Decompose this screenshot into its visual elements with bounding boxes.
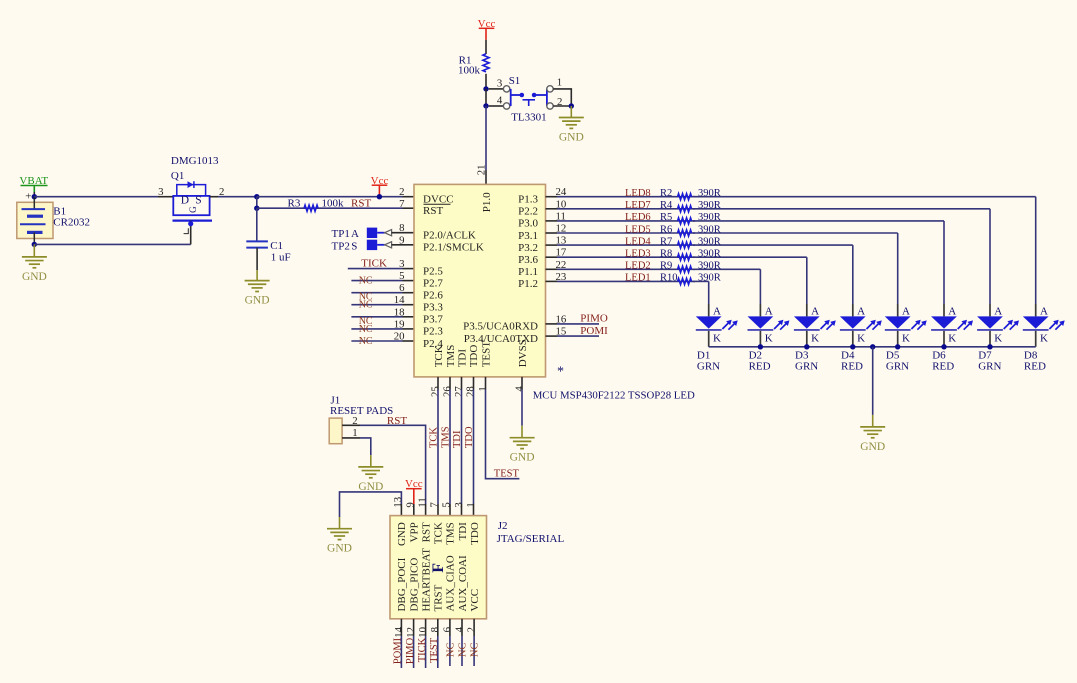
svg-text:F: F <box>430 563 447 573</box>
svg-text:NC: NC <box>359 276 373 287</box>
svg-text:GND: GND <box>245 295 270 307</box>
LED D8 RED <box>1023 305 1065 372</box>
wire J2 pin 10 down <box>425 619 427 668</box>
svg-text:DVSS: DVSS <box>517 339 529 367</box>
svg-text:LED7: LED7 <box>625 200 651 211</box>
svg-text:P3.6: P3.6 <box>518 254 538 266</box>
svg-text:P1.0: P1.0 <box>481 192 493 212</box>
LED D4 RED <box>840 305 882 372</box>
svg-text:P2.3: P2.3 <box>423 326 443 338</box>
wire NC to MCU (left row 2) <box>351 292 414 294</box>
wire J2 pin 8 down <box>437 619 439 668</box>
svg-text:P3.1: P3.1 <box>518 230 538 242</box>
LED D5 GRN <box>885 305 927 372</box>
svg-text:20: 20 <box>394 331 405 343</box>
svg-text:4: 4 <box>453 626 465 632</box>
node cathode bus junction <box>804 344 809 349</box>
MCU right pin names <box>463 194 538 345</box>
node battery minus <box>32 242 37 247</box>
svg-text:TDO: TDO <box>468 345 480 368</box>
svg-text:TL3301: TL3301 <box>511 111 546 123</box>
net label LED1 <box>625 273 651 284</box>
svg-text:26: 26 <box>442 386 454 397</box>
svg-text:VPP: VPP <box>408 522 420 542</box>
no-connect label NC pin 4 <box>458 643 469 658</box>
svg-text:5: 5 <box>441 502 453 507</box>
svg-text:3: 3 <box>158 186 163 198</box>
net label LED5 <box>625 224 651 235</box>
wire D1 cathode to bus <box>708 331 710 347</box>
wire J2 pin 2 down <box>473 619 475 666</box>
svg-text:R7: R7 <box>660 236 672 247</box>
net label TEST <box>494 468 520 479</box>
MCU caption MSP430F2122 TSSOP28 LED <box>533 389 695 401</box>
node cathode bus junction <box>987 344 992 349</box>
svg-text:18: 18 <box>394 306 405 318</box>
svg-text:DMG1013: DMG1013 <box>171 155 219 167</box>
svg-text:LED3: LED3 <box>625 249 651 260</box>
svg-text:VCC: VCC <box>469 589 481 612</box>
svg-text:DBG_PICO: DBG_PICO <box>408 558 420 612</box>
svg-text:A: A <box>1040 305 1048 317</box>
svg-text:K: K <box>857 332 865 344</box>
ground at S1 <box>559 106 584 144</box>
svg-text:S: S <box>351 240 357 252</box>
net label POMI at J2 <box>393 637 404 664</box>
wire R3 to MCU RST pin 7 <box>321 207 415 209</box>
net label LED4 <box>625 236 651 247</box>
ground at J2 pin 13 <box>327 517 352 555</box>
svg-text:P2.2: P2.2 <box>518 206 538 218</box>
svg-text:8: 8 <box>399 222 404 234</box>
svg-text:14: 14 <box>394 294 405 306</box>
net label TDO <box>464 426 475 448</box>
svg-text:P2.7: P2.7 <box>423 277 443 289</box>
svg-text:P3.5/UCA0RXD: P3.5/UCA0RXD <box>463 321 538 333</box>
wire D7 cathode to bus <box>989 331 991 347</box>
svg-text:HEARTBEAT: HEARTBEAT <box>420 548 432 612</box>
svg-text:TCK: TCK <box>433 522 445 544</box>
node R3 tap <box>254 206 259 211</box>
svg-text:S: S <box>195 194 201 206</box>
wire J1 pin 2 RST to J2 pin 11 <box>342 425 426 515</box>
svg-text:R6: R6 <box>660 224 672 235</box>
svg-text:CR2032: CR2032 <box>53 217 90 229</box>
net label RST <box>351 197 371 209</box>
wire D3 cathode to bus <box>806 331 808 347</box>
svg-text:5: 5 <box>399 270 404 282</box>
svg-text:TMS: TMS <box>441 426 452 448</box>
svg-text:3: 3 <box>399 258 404 270</box>
resistor R9 390R <box>660 261 721 273</box>
svg-text:TICK: TICK <box>361 257 387 269</box>
svg-text:GND: GND <box>559 132 584 144</box>
svg-text:9: 9 <box>399 234 404 246</box>
wire R9 to LED D2 <box>693 269 760 316</box>
ground at battery <box>22 244 47 283</box>
connector J2 JTAG/SERIAL body <box>390 516 487 619</box>
LED D3 GRN <box>794 305 836 372</box>
svg-text:K: K <box>765 332 773 344</box>
svg-text:10: 10 <box>417 627 429 638</box>
wire node down to C1 <box>256 208 258 241</box>
wire battery plus to Q1 pin 3 <box>34 196 173 198</box>
ground at DVSS <box>510 426 535 464</box>
power Vcc (top) <box>478 18 496 40</box>
test pad TP2 <box>332 240 378 253</box>
svg-text:A: A <box>857 305 865 317</box>
wire R10 to LED D1 <box>693 281 709 316</box>
svg-text:A: A <box>948 305 956 317</box>
J2 F marker <box>430 563 447 573</box>
svg-text:TMS: TMS <box>445 522 457 545</box>
svg-text:R4: R4 <box>660 200 673 211</box>
wire Q1 pin 2 to node <box>210 196 257 198</box>
wire MCU pin 16 stub <box>546 323 600 325</box>
svg-text:19: 19 <box>394 318 405 330</box>
resistor R5 390R <box>660 212 721 224</box>
wire node to MCU P1.0 pin 21 <box>476 106 488 184</box>
wire NC to MCU (left row 4) <box>351 316 414 318</box>
svg-text:A: A <box>765 305 773 317</box>
svg-text:GND: GND <box>22 271 47 283</box>
connector J1 RESET PADS <box>329 395 393 444</box>
power Vcc at J2 <box>405 478 423 515</box>
ground at LED bus <box>860 415 885 453</box>
node cathode bus junction <box>895 344 900 349</box>
net label PIMO <box>580 313 608 325</box>
wire Vcc to R1 <box>485 40 487 54</box>
svg-text:TDI: TDI <box>456 349 468 368</box>
svg-text:LED1: LED1 <box>625 273 651 284</box>
svg-text:*: * <box>557 365 564 380</box>
svg-text:1: 1 <box>465 502 477 507</box>
no-connect label NC pin 2 <box>470 643 481 658</box>
transistor Q1 DMG1013 <box>158 155 224 244</box>
svg-text:4: 4 <box>514 386 526 392</box>
svg-text:21: 21 <box>476 165 488 176</box>
svg-text:PIMO: PIMO <box>405 637 416 664</box>
svg-text:LED2: LED2 <box>625 261 651 272</box>
svg-text:G: G <box>188 206 198 213</box>
svg-text:K: K <box>811 332 819 344</box>
svg-text:POMI: POMI <box>393 637 404 664</box>
svg-text:NC: NC <box>458 643 469 658</box>
node R1/S1 junction 1 <box>483 86 488 91</box>
svg-text:TP2: TP2 <box>332 240 350 252</box>
svg-text:P2.0/ACLK: P2.0/ACLK <box>423 230 476 242</box>
svg-text:8: 8 <box>429 627 441 632</box>
no-connect label NC pin 6 <box>445 643 456 658</box>
svg-text:R8: R8 <box>660 249 672 260</box>
svg-text:TCK: TCK <box>429 427 440 448</box>
svg-text:R3: R3 <box>288 197 301 209</box>
svg-text:9: 9 <box>404 502 416 507</box>
net label PIMO at J2 <box>405 637 416 664</box>
LED D2 RED <box>748 305 790 372</box>
svg-text:TMS: TMS <box>445 345 457 368</box>
svg-text:100k: 100k <box>458 65 481 77</box>
svg-text:+: + <box>25 190 31 202</box>
svg-text:A: A <box>994 305 1002 317</box>
net label TDI <box>452 430 463 448</box>
wire MCU to resistor R7 <box>546 244 696 246</box>
svg-text:K: K <box>948 332 956 344</box>
svg-text:P3.7: P3.7 <box>423 314 443 326</box>
net label TICK at J2 <box>417 637 428 662</box>
svg-text:GND: GND <box>396 522 408 546</box>
svg-text:14: 14 <box>393 626 405 637</box>
svg-text:P3.0: P3.0 <box>518 218 538 230</box>
wire MCU to resistor R10 <box>546 280 696 282</box>
node Q1 out <box>254 194 259 199</box>
ground at J1 <box>358 455 383 493</box>
svg-text:LED6: LED6 <box>625 212 651 223</box>
J2 bottom pin names <box>396 548 481 612</box>
svg-text:NC: NC <box>359 300 373 311</box>
node S1 ground junction <box>569 103 574 108</box>
wire MCU to resistor R6 <box>546 232 696 234</box>
svg-text:25: 25 <box>430 386 442 397</box>
LED D1 GRN <box>696 305 738 372</box>
wire R5 to LED D6 <box>693 221 944 317</box>
svg-text:GRN: GRN <box>978 360 1001 372</box>
wire S1 pin1/pin2 to ground <box>553 89 571 106</box>
no-connect label NC <box>359 336 373 347</box>
MCU bottom pin names <box>433 339 529 367</box>
resistor R4 390R <box>660 200 721 212</box>
switch S1 TL3301 <box>489 75 563 123</box>
wire TICK to MCU pin 3 <box>348 268 414 270</box>
svg-text:13: 13 <box>392 497 404 508</box>
wire MCU DVSS pin 4 to ground <box>521 377 523 426</box>
svg-text:RED: RED <box>841 360 863 372</box>
wire MCU pin 15 stub <box>546 335 600 337</box>
net label LED8 <box>625 188 651 199</box>
J2 top pin names <box>396 522 481 546</box>
wire battery minus to Q1 gate <box>34 243 190 245</box>
resistor R7 390R <box>660 236 721 248</box>
svg-text:1: 1 <box>557 77 562 89</box>
svg-text:POMI: POMI <box>580 325 608 337</box>
svg-text:GRN: GRN <box>795 360 818 372</box>
svg-text:2: 2 <box>466 627 478 632</box>
node S1 junction 2 <box>483 103 488 108</box>
svg-text:K: K <box>1040 332 1048 344</box>
svg-text:R9: R9 <box>660 261 672 272</box>
wire J2 pin 6 down <box>449 619 451 666</box>
MCU asterisk <box>557 365 564 380</box>
svg-text:RST: RST <box>423 205 443 217</box>
svg-text:R5: R5 <box>660 212 672 223</box>
svg-text:3: 3 <box>453 502 465 507</box>
svg-text:A: A <box>351 228 359 240</box>
wire LED cathode bus <box>709 346 1036 348</box>
no-connect label NC <box>359 316 373 327</box>
wire MCU to resistor R2 <box>546 196 696 198</box>
svg-text:NC: NC <box>359 324 373 335</box>
wire MCU pin 27 to J2 (TDI) <box>461 377 463 516</box>
wire MCU pin 26 to J2 (TMS) <box>449 377 451 516</box>
svg-text:LED8: LED8 <box>625 188 651 199</box>
net label LED7 <box>625 200 651 211</box>
test pad TP1 <box>332 228 378 241</box>
wire R7 to LED D4 <box>693 245 853 316</box>
svg-text:P1.3: P1.3 <box>518 194 538 206</box>
node cathode bus junction <box>850 344 855 349</box>
wire MCU TEST pin 1 <box>486 377 520 479</box>
svg-text:GRN: GRN <box>697 360 720 372</box>
svg-text:RED: RED <box>1024 360 1046 372</box>
svg-text:TDO: TDO <box>464 426 475 448</box>
no-connect label NC <box>359 324 373 335</box>
svg-text:TRST: TRST <box>433 584 445 611</box>
svg-text:TDI: TDI <box>452 430 463 448</box>
wire MCU to resistor R9 <box>546 268 696 270</box>
svg-text:P2.6: P2.6 <box>423 290 443 302</box>
LED D7 GRN <box>977 305 1019 372</box>
node cathode bus junction <box>758 344 763 349</box>
resistor R1 <box>458 54 489 77</box>
svg-text:GND: GND <box>327 543 352 555</box>
wire MCU pin 25 to J2 (TCK) <box>437 377 439 516</box>
J2 top pin numbers <box>392 497 477 508</box>
MCU U1 MSP430F2122 body <box>414 184 546 377</box>
svg-text:P3.3: P3.3 <box>423 302 443 314</box>
svg-text:Q1: Q1 <box>171 170 184 182</box>
svg-text:TICK: TICK <box>417 637 428 662</box>
wire J2 pin 13 to ground <box>340 492 402 517</box>
svg-text:RST: RST <box>420 522 432 542</box>
wire junction to junction <box>485 89 487 106</box>
svg-text:P1.2: P1.2 <box>518 278 538 290</box>
svg-text:NC: NC <box>359 336 373 347</box>
MCU bottom pin numbers <box>430 386 526 397</box>
wire TP1 to MCU pin 8 <box>377 230 414 236</box>
svg-text:P1.1: P1.1 <box>518 266 538 278</box>
J2 bottom pin numbers <box>393 626 478 637</box>
net label LED6 <box>625 212 651 223</box>
net label TCK <box>429 427 440 448</box>
svg-text:4: 4 <box>497 95 503 107</box>
svg-text:JTAG/SERIAL: JTAG/SERIAL <box>497 533 565 545</box>
wire node down to RST row <box>256 197 258 209</box>
resistor R3 100k <box>257 197 344 211</box>
svg-text:RESET PADS: RESET PADS <box>330 405 393 417</box>
svg-text:LED4: LED4 <box>625 236 651 247</box>
svg-text:K: K <box>902 332 910 344</box>
wire R8 to LED D3 <box>693 257 807 316</box>
ground at C1 <box>245 270 270 306</box>
svg-text:R10: R10 <box>660 273 678 284</box>
wire D2 cathode to bus <box>759 331 761 347</box>
wire R4 to LED D7 <box>693 209 990 317</box>
svg-text:7: 7 <box>429 502 441 508</box>
wire NC to MCU (left row 5) <box>351 328 414 330</box>
svg-text:TCK: TCK <box>433 345 445 367</box>
svg-text:A: A <box>811 305 819 317</box>
MCU top pin name P1.0 <box>481 192 493 212</box>
svg-text:TEST: TEST <box>494 468 520 479</box>
svg-text:TDO: TDO <box>469 522 481 545</box>
svg-text:RED: RED <box>932 360 954 372</box>
svg-text:GND: GND <box>860 441 885 453</box>
wire TP2 to MCU pin 9 <box>377 242 414 248</box>
no-connect label NC <box>359 276 373 287</box>
svg-text:GRN: GRN <box>886 360 909 372</box>
wire J2 pin 4 down <box>461 619 463 666</box>
svg-text:A: A <box>713 305 721 317</box>
svg-text:TP1: TP1 <box>332 228 350 240</box>
svg-text:3: 3 <box>497 78 502 90</box>
svg-text:TDI: TDI <box>457 522 469 541</box>
node bus ground tap <box>870 344 875 349</box>
wire node to MCU DVCC pin 2 <box>257 196 414 198</box>
svg-text:NC: NC <box>445 643 456 658</box>
wire bus to ground <box>872 347 874 415</box>
wire NC to MCU (left row 3) <box>351 304 414 306</box>
wire D6 cathode to bus <box>943 331 945 347</box>
svg-text:C1: C1 <box>270 240 283 252</box>
svg-text:1: 1 <box>477 386 489 391</box>
net label POMI <box>580 325 608 337</box>
capacitor C1 1uF <box>246 240 290 270</box>
wire MCU pin 28 to J2 (TDO) <box>473 377 475 516</box>
svg-text:12: 12 <box>405 627 417 638</box>
svg-text:PIMO: PIMO <box>580 313 608 325</box>
svg-text:28: 28 <box>465 386 477 397</box>
svg-text:1 uF: 1 uF <box>271 252 291 264</box>
svg-text:NC: NC <box>470 643 481 658</box>
svg-text:P2.5: P2.5 <box>423 265 443 277</box>
wire MCU to resistor R8 <box>546 256 696 258</box>
svg-text:7: 7 <box>399 198 405 210</box>
svg-text:AUX_COAI: AUX_COAI <box>457 555 469 612</box>
power VBAT <box>19 175 48 192</box>
wire J1 pin 1 to ground <box>342 438 371 455</box>
svg-text:P3.2: P3.2 <box>518 242 538 254</box>
svg-text:RST: RST <box>387 415 407 427</box>
svg-text:DBG_POCI: DBG_POCI <box>396 557 408 611</box>
svg-text:K: K <box>713 332 721 344</box>
svg-text:6: 6 <box>441 626 453 632</box>
svg-text:A: A <box>902 305 910 317</box>
wire J2 pin 14 down <box>400 619 402 668</box>
resistor R2 390R <box>660 188 721 200</box>
net label TICK <box>361 257 387 269</box>
wire J2 pin 12 down <box>413 619 415 668</box>
power Vcc at MCU <box>371 175 389 197</box>
net label LED3 <box>625 249 651 260</box>
svg-text:6: 6 <box>399 282 405 294</box>
net label LED2 <box>625 261 651 272</box>
wire MCU to resistor R5 <box>546 220 696 222</box>
no-connect label NC <box>359 300 373 311</box>
node cathode bus junction <box>941 344 946 349</box>
svg-text:P2.1/SMCLK: P2.1/SMCLK <box>423 242 484 254</box>
net label TEST at J2 <box>429 637 440 663</box>
node battery plus <box>32 194 37 199</box>
svg-text:11: 11 <box>416 497 428 507</box>
svg-text:R2: R2 <box>660 188 672 199</box>
svg-text:J2: J2 <box>498 520 508 532</box>
wire D4 cathode to bus <box>852 331 854 347</box>
wire D5 cathode to bus <box>897 331 899 347</box>
battery B1 CR2032 <box>17 197 90 245</box>
svg-text:TEST: TEST <box>480 341 492 368</box>
svg-text:TEST: TEST <box>429 637 440 663</box>
resistor R10 390R <box>660 273 721 285</box>
